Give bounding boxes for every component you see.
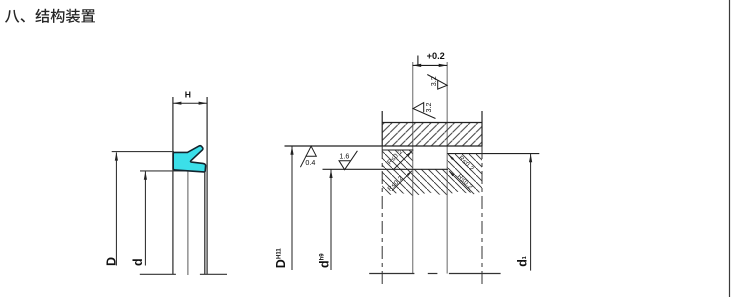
svg-text:1: 1 [522,256,528,259]
bottom break line segment 1 [369,273,414,275]
roughness symbol 3.2 upper (right groove wall) [427,75,447,90]
d h9 dimension line with up arrow [329,170,332,271]
+0.2 dimension line with arrows [413,56,448,68]
label d1 rotated [515,256,529,267]
page right border [729,0,731,297]
R0.2 callout right-upper [448,154,475,176]
R0.2 callout left-upper [386,148,412,170]
D H11 dimension line with up arrow [290,146,293,270]
vertical line below seal lip (d edge) [187,172,189,276]
svg-text:h9: h9 [320,253,326,261]
svg-text:d: d [317,260,331,268]
bottom break line middle dash [428,273,438,275]
left land surface line [382,149,413,151]
d1 surface line [447,153,539,155]
housing block left edge [381,111,383,147]
D dimension line with up arrow [115,152,118,265]
H dimension line with arrows [173,102,207,105]
housing block top edge [382,122,482,124]
label D H11 rotated [274,248,288,269]
svg-text:3.2: 3.2 [424,103,433,113]
dash-dot right edge below block [481,146,483,285]
svg-text:1.6: 1.6 [339,152,349,161]
R0.2 callout left-lower [386,170,412,193]
housing block hatched [382,123,482,147]
svg-text:D: D [104,257,118,266]
H extension line left [172,97,174,274]
svg-text:0.4: 0.4 [305,158,315,167]
title 八、结构装置 [5,9,95,23]
dash-dot left edge below block [381,146,383,285]
svg-text:3.2: 3.2 [429,76,438,86]
d dimension line with up arrow [144,171,147,265]
bottom break line segment 2 [449,273,501,275]
H extension line right [206,97,208,274]
D extension line [112,151,174,153]
seal cross-section (cyan wiper profile) [173,146,205,172]
svg-text:H11: H11 [276,248,282,259]
label d h9 rotated [317,253,331,268]
R0.2 callout right-lower [449,171,474,193]
d extension line [140,170,189,172]
d1 dimension line with up arrow [529,154,532,271]
svg-text:d: d [131,258,145,266]
roughness symbol 0.4 (groove root) [300,146,316,167]
svg-text:+0.2: +0.2 [427,51,445,61]
bottom break line left segment [140,273,176,275]
groove wall extension line left (gray) [412,62,414,274]
svg-text:D: D [274,259,288,268]
vertical line below seal right edge [204,172,206,274]
lower hatch region [382,150,482,196]
groove root line D H11 [285,145,483,147]
svg-text:H: H [185,90,191,100]
roughness symbol 3.2 lower (left groove wall) [413,103,435,119]
roughness symbol 1.6 (d h9 surface) [339,151,357,170]
d h9 surface line [323,168,448,170]
bottom break line right segment [200,273,227,275]
housing block right edge [481,111,483,147]
groove wall extension line right (gray) [446,62,448,274]
